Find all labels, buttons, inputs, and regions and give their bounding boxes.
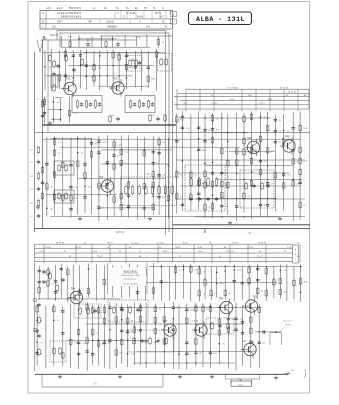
svg-text:TL TL EL: TL TL EL (126, 12, 136, 15)
svg-text:4L T: 4L T (160, 16, 165, 19)
svg-text:E.AU: E.AU (57, 7, 63, 10)
svg-text:L: L (173, 22, 174, 24)
svg-text:C: C (123, 16, 125, 19)
svg-text:LA 9 E.AU 559 6/3/74: LA 9 E.AU 559 6/3/74 (57, 12, 82, 15)
svg-text:(5,6,5): (5,6,5) (107, 20, 114, 23)
svg-text:C: C (42, 12, 44, 15)
svg-text:Earpiece: Earpiece (284, 320, 293, 323)
svg-text:socket: socket (285, 323, 292, 326)
svg-text:559 6/3/74: 559 6/3/74 (69, 7, 81, 10)
svg-text:TD: TD (144, 7, 148, 10)
svg-text:ALBA - 131L: ALBA - 131L (196, 16, 245, 23)
svg-text:9P: 9P (89, 20, 92, 23)
svg-text:F20 F14: F20 F14 (116, 232, 125, 234)
svg-text:54 (2): 54 (2) (137, 16, 143, 19)
svg-text:LA 9: LA 9 (46, 7, 52, 10)
svg-text:TD TL: TD TL (155, 12, 162, 15)
svg-text:6/3/58 9 91 N,6/3,0: 6/3/58 9 91 N,6/3,0 (61, 16, 82, 19)
svg-text:6/8 T: 6/8 T (57, 20, 63, 23)
